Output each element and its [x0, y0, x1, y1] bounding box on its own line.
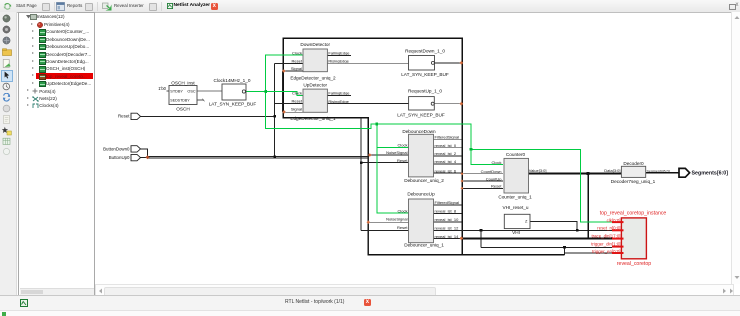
junction green counter [470, 148, 473, 151]
wire counter countdown [462, 173, 503, 175]
module boundary top (stepped outline) [283, 38, 462, 255]
wire reset_n long [433, 229, 612, 231]
wire counter reset [462, 187, 503, 189]
junction reset trunk [273, 156, 276, 159]
svg-text:CountUp: CountUp [486, 176, 503, 181]
svg-text:reveal_ist_14: reveal_ist_14 [435, 234, 460, 239]
wire requestup output [434, 103, 461, 105]
svg-text:RequestDown_1_0: RequestDown_1_0 [405, 48, 445, 53]
wire reveal stub du ist10 [433, 221, 462, 223]
wire reveal stub du ist14 [433, 238, 462, 240]
port ButtonDown0 [103, 146, 140, 152]
wire osch osc to clock buffer [197, 90, 222, 92]
wire trace bus [462, 238, 612, 240]
svg-text:Reset: Reset [292, 99, 303, 104]
bottom tab bar [0, 295, 740, 310]
wire clock green main [266, 55, 503, 165]
boundary diamond requestdown out [460, 61, 464, 65]
buffer RequestUp_1_0 [397, 89, 445, 118]
wire trigger drop [480, 230, 482, 247]
svg-text:FilteredSignal: FilteredSignal [435, 135, 460, 140]
wire reveal stub dd ist4 [433, 163, 462, 165]
boundary diamond countdown [461, 172, 464, 175]
svg-text:Reset: Reset [491, 184, 502, 189]
wire clock green debounce riser [377, 124, 409, 213]
svg-text:Counter0: Counter0 [506, 152, 526, 157]
wire clock green right branch [471, 149, 612, 222]
svg-text:Reset: Reset [118, 114, 130, 119]
wire downdetector risingedge to requestdown [327, 62, 408, 64]
wire sedstdby stub [197, 99, 204, 101]
wire reset port to junction [141, 115, 275, 117]
svg-text:Reset: Reset [292, 58, 303, 63]
svg-text:Clock: Clock [292, 91, 302, 96]
svg-text:RisingEdge: RisingEdge [328, 58, 349, 63]
wire counter countup [462, 180, 503, 182]
port Segments output [679, 168, 728, 177]
wire clock green updetector [266, 92, 303, 96]
svg-text:LAT_SYN_KEEP_BUF: LAT_SYN_KEEP_BUF [401, 72, 449, 77]
svg-text:1'b0: 1'b0 [158, 86, 166, 91]
junction reset port [273, 115, 276, 118]
svg-text:VHI_reset_u: VHI_reset_u [502, 205, 528, 210]
port Reset [118, 113, 140, 119]
wire button trunk a [148, 155, 369, 157]
wire reset riser left [274, 63, 276, 157]
svg-text:reveal_ist_8: reveal_ist_8 [435, 209, 457, 214]
svg-text:Decoder0: Decoder0 [623, 161, 644, 166]
svg-text:DebounceUp: DebounceUp [407, 192, 435, 197]
wire debounceup noisesignal [368, 221, 409, 223]
svg-text:Segments[6:0]: Segments[6:0] [692, 171, 729, 177]
wire trigger din [481, 246, 612, 248]
wire value bus drop [587, 174, 589, 239]
svg-text:STDBY: STDBY [170, 90, 183, 94]
wire debounceup reset [361, 229, 409, 231]
wire updetector signal [283, 111, 303, 113]
svg-text:reveal_ist_2: reveal_ist_2 [435, 151, 457, 156]
svg-text:ButtonDown0: ButtonDown0 [103, 147, 130, 152]
svg-text:VHI: VHI [512, 230, 520, 235]
svg-text:Clock: Clock [491, 160, 501, 165]
wire reset riser mid [360, 117, 362, 230]
wire 1'b0 stub [167, 90, 170, 92]
wire debouncedown noisesignal [368, 154, 409, 156]
wire downdetector signal [283, 70, 303, 72]
svg-text:DebounceDown: DebounceDown [402, 129, 436, 134]
svg-text:Debouncer_uniq_1: Debouncer_uniq_1 [404, 243, 444, 248]
svg-text:reveal_ist_0: reveal_ist_0 [435, 143, 457, 148]
reveal core pin stubs [612, 222, 624, 253]
svg-text:Reset: Reset [397, 158, 408, 163]
boundary diamond du noisesignal [367, 220, 371, 224]
wire button trunk b [148, 157, 369, 159]
debouncer DebounceUp [386, 192, 459, 248]
svg-text:Clock14MHz_1_0: Clock14MHz_1_0 [214, 78, 251, 83]
svg-text:NoiseSignal: NoiseSignal [386, 150, 407, 155]
wire clock green debouncedown [377, 147, 409, 149]
wire signal riser [282, 71, 284, 112]
junction dd reset [360, 161, 363, 164]
buffer RequestDown_1_0 [401, 48, 449, 77]
junction trigger drop [480, 229, 483, 232]
svg-text:EdgeDetector_uniq_2: EdgeDetector_uniq_2 [290, 76, 336, 81]
boundary diamond counter reset [461, 187, 464, 190]
boundary diamond downdetector signal [282, 69, 286, 73]
svg-text:OSCH_inst: OSCH_inst [171, 80, 195, 85]
vertical scrollbar [731, 12, 740, 284]
wire buttondown0 drop [141, 149, 148, 158]
svg-text:Reset: Reset [397, 225, 408, 230]
svg-text:Debouncer_uniq_2: Debouncer_uniq_2 [404, 178, 444, 183]
tree panel [18, 12, 96, 297]
svg-text:Signal: Signal [291, 106, 302, 111]
wire downdetector fallingedge stub [327, 54, 351, 56]
svg-text:Clock: Clock [292, 51, 302, 56]
horizontal scrollbar [95, 284, 734, 297]
wire reveal stub dd ist2 [433, 155, 462, 157]
boundary diamond button [146, 155, 150, 159]
svg-text:trace_din[17:0]: trace_din[17:0] [591, 233, 620, 238]
svg-text:RisingEdge: RisingEdge [328, 99, 349, 104]
junction trigger [563, 246, 566, 249]
svg-text:top_reveal_coretop_instance: top_reveal_coretop_instance [600, 211, 667, 217]
junction green dd clock [376, 123, 379, 126]
boundary diamond trace out [460, 236, 464, 240]
wire decoder output [646, 172, 679, 174]
svg-text:DownDetector: DownDetector [300, 42, 330, 47]
sedstdby open tick [203, 99, 205, 102]
svg-text:FallingEdge: FallingEdge [328, 51, 350, 56]
wire reveal stub du ist8 [433, 213, 462, 215]
svg-text:reveal_ist_10: reveal_ist_10 [435, 217, 460, 222]
svg-text:reveal_ist_4: reveal_ist_4 [435, 159, 457, 164]
boundary diamond dd noisesignal [368, 153, 372, 157]
svg-text:reveal_ist_6: reveal_ist_6 [435, 168, 457, 173]
status strip [0, 310, 740, 316]
svg-text:Signal: Signal [291, 66, 302, 71]
wire downdetector reset [275, 62, 303, 64]
buffer Clock14MHz_1_0 [209, 78, 257, 107]
decoder Decoder0 [604, 161, 669, 184]
svg-text:Value[3:0]: Value[3:0] [529, 168, 547, 173]
wire requestdown output [435, 62, 462, 64]
wire trigger riser [564, 247, 566, 255]
wire updetector risingedge to requestup [327, 103, 408, 105]
svg-text:RequestUp_1_0: RequestUp_1_0 [408, 89, 442, 94]
svg-text:Counter_uniq_1: Counter_uniq_1 [498, 195, 532, 200]
svg-text:Decoder7seg_uniq_1: Decoder7seg_uniq_1 [611, 179, 656, 184]
edge detector UpDetector [290, 83, 350, 121]
wire updetector reset [275, 103, 303, 105]
svg-text:FilteredSignal: FilteredSignal [435, 200, 460, 205]
wire reveal stub dd ist0 [433, 147, 462, 149]
svg-text:UpDetector: UpDetector [303, 83, 327, 88]
svg-text:Clock: Clock [397, 208, 407, 213]
svg-text:Segments[6:0]: Segments[6:0] [647, 169, 670, 173]
svg-text:NoiseSignal: NoiseSignal [386, 216, 407, 221]
svg-text:FallingEdge: FallingEdge [328, 91, 350, 96]
wire reveal stub dd filteredsignal [433, 138, 462, 140]
svg-text:OSC: OSC [187, 90, 195, 94]
wire clock green from buffer [246, 91, 266, 93]
boundary diamond updetector signal [282, 110, 286, 114]
edge detector DownDetector [290, 42, 350, 81]
wire reveal stub dd ist6 [433, 172, 462, 174]
svg-text:SEDSTDBY: SEDSTDBY [170, 99, 190, 103]
junction green clock buffer [264, 90, 267, 93]
svg-text:CountDown: CountDown [481, 169, 502, 174]
debouncer DebounceDown [386, 129, 459, 183]
junction vhi reset [576, 229, 579, 232]
junction value bus [587, 172, 590, 175]
power VHI_reset_u [502, 205, 530, 235]
svg-text:reveal_coretop: reveal_coretop [617, 261, 651, 267]
svg-text:Clock: Clock [397, 143, 407, 148]
wire updetector fallingedge stub [327, 95, 351, 97]
port ButtonUp0 [109, 154, 141, 160]
svg-text:OSCH: OSCH [176, 107, 190, 112]
wire button trunk riser [367, 156, 369, 254]
svg-text:Data[3:0]: Data[3:0] [604, 168, 620, 173]
oscillator OSCH_inst [169, 80, 197, 111]
svg-text:LAT_SYN_KEEP_BUF: LAT_SYN_KEEP_BUF [397, 113, 445, 118]
wire value bus [528, 173, 621, 175]
wire bottom trunk [462, 254, 565, 256]
left toolbar [0, 12, 17, 297]
wire reveal stub du filteredsignal [433, 204, 462, 206]
reveal core top_reveal_coretop_instance [591, 211, 666, 267]
svg-text:reveal_ist_12: reveal_ist_12 [435, 226, 460, 231]
wire debouncedown reset [361, 162, 409, 164]
top tab bar [0, 0, 740, 13]
svg-text:EdgeDetector_uniq_1: EdgeDetector_uniq_1 [290, 116, 336, 121]
wire trigger en [565, 252, 613, 254]
boundary diamond countup [461, 180, 464, 183]
wire vhi z output [530, 221, 577, 230]
counter Counter0 [481, 152, 547, 200]
svg-text:LAT_SYN_KEEP_BUF: LAT_SYN_KEEP_BUF [209, 102, 257, 107]
boundary diamond requestup out [460, 102, 464, 106]
wire buttonup0 [141, 157, 148, 159]
svg-text:ButtonUp0: ButtonUp0 [109, 155, 130, 160]
